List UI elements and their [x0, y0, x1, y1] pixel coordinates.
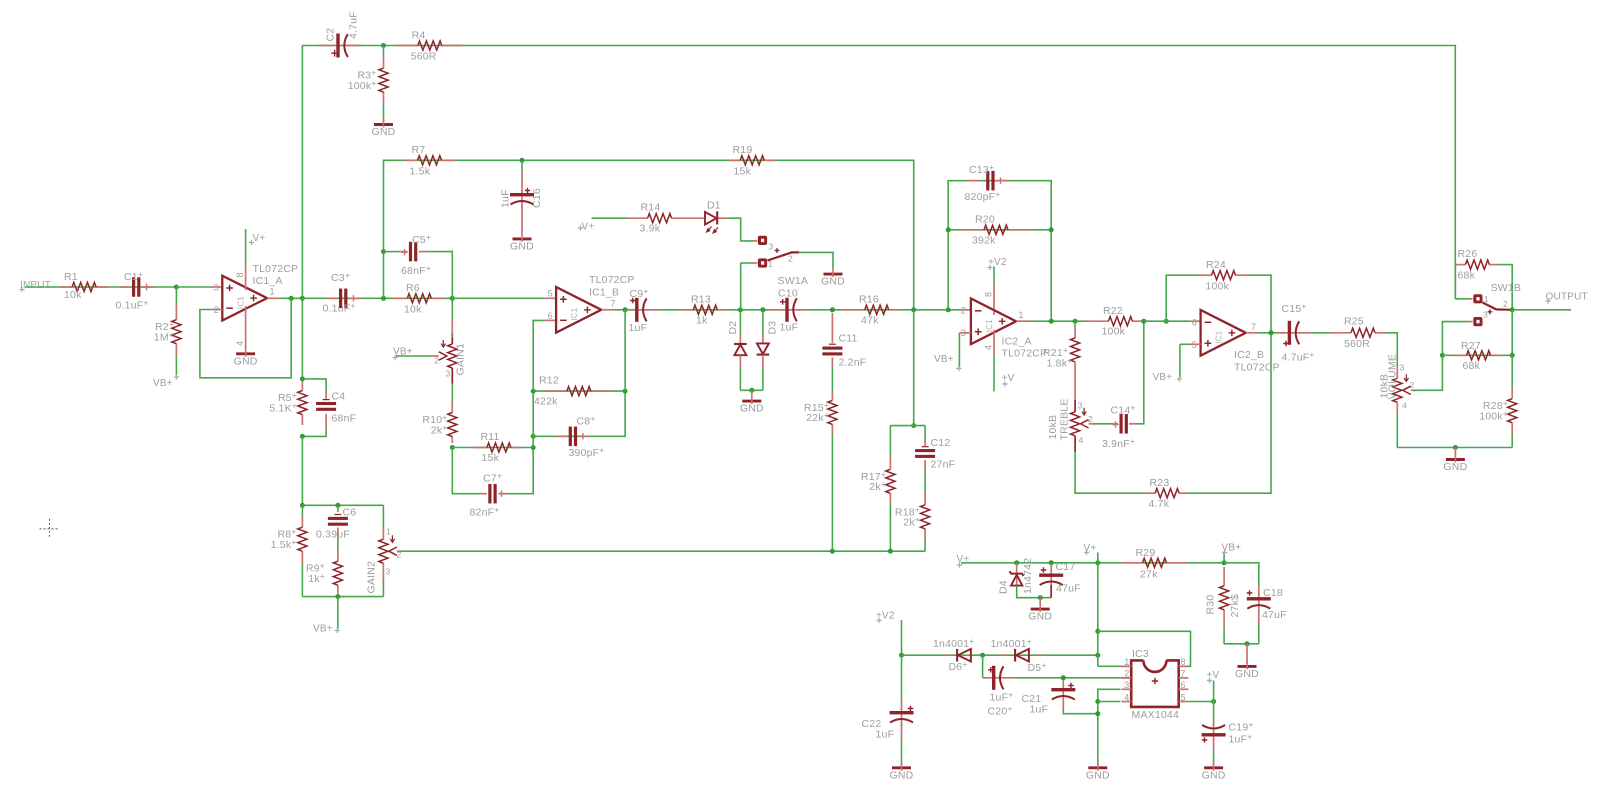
zener diode D4 [1016, 563, 1018, 585]
wire C6 top row [302, 504, 383, 506]
resistor R5 [301, 381, 303, 391]
resistor R7 [404, 159, 418, 161]
svg-text:R23: R23 [1150, 477, 1170, 489]
svg-text:GND: GND [234, 355, 258, 367]
capacitor C3 [326, 297, 337, 299]
wire C9 junction down to R12 [624, 310, 626, 391]
svg-text:VB+: VB+ [934, 354, 954, 365]
wire R30 C18 bottom row [1223, 626, 1225, 644]
potentiometer GAIN2 [382, 505, 384, 527]
resistor R26 [1455, 264, 1465, 266]
resistor R14 [628, 217, 648, 219]
wire IC1_A feedback loop [200, 298, 291, 378]
svg-text:392k: 392k [972, 235, 996, 247]
ground under C19 [1213, 763, 1215, 766]
capacitor C8 [556, 435, 567, 437]
node junction IC1_B out [623, 307, 628, 312]
ground under C22 [901, 763, 903, 766]
svg-text:R11: R11 [481, 431, 500, 443]
resistor R12 [545, 390, 567, 392]
op-amp IC1_A [222, 276, 267, 321]
wire D4 bottom [1017, 586, 1051, 598]
capacitor C21 [1062, 680, 1064, 688]
svg-text:4.7uF: 4.7uF [348, 11, 360, 39]
svg-text:0.1uF+: 0.1uF+ [323, 301, 356, 315]
svg-text:1uF: 1uF [876, 729, 895, 741]
wire R26 right to output node [1499, 265, 1512, 310]
svg-text:1: 1 [386, 527, 391, 537]
node junction diode GND [749, 388, 754, 393]
resistor R21 [1074, 321, 1076, 327]
wire GAIN2 wiper stub [397, 550, 401, 552]
wire IC3 pin1 [1098, 665, 1121, 667]
resistor R22 [1086, 320, 1108, 322]
resistor R2 [175, 287, 177, 305]
svg-text:422k: 422k [534, 396, 558, 408]
resistor R3 [383, 46, 385, 58]
wire +V2 down [901, 620, 903, 655]
capacitor C4 [325, 391, 327, 400]
node junction D3 [760, 307, 765, 312]
svg-text:R20: R20 [975, 214, 995, 226]
svg-text:1: 1 [1484, 294, 1489, 304]
svg-text:IC1: IC1 [1215, 330, 1224, 343]
svg-text:C12: C12 [931, 437, 951, 449]
wire C6 bottom row [302, 596, 383, 598]
svg-text:GND: GND [510, 240, 534, 252]
svg-text:+V2: +V2 [876, 611, 895, 622]
svg-text:22k+: 22k+ [806, 410, 829, 424]
svg-text:1uF: 1uF [629, 322, 648, 334]
svg-text:3.9k: 3.9k [640, 223, 661, 235]
svg-text:R30: R30 [1205, 595, 1217, 615]
svg-text:3: 3 [386, 567, 391, 577]
svg-text:68nF+: 68nF+ [401, 263, 431, 277]
svg-text:R24: R24 [1206, 259, 1226, 271]
supply VB+ at GAIN1 [393, 355, 398, 360]
svg-text:IC1: IC1 [985, 319, 994, 332]
svg-text:2.2nF: 2.2nF [839, 357, 867, 369]
node junction C21 bottom [1095, 711, 1100, 716]
svg-text:C6: C6 [343, 507, 357, 519]
wire C22 to GND [901, 723, 903, 741]
node junction D4 top [1014, 560, 1019, 565]
svg-text:C15+: C15+ [1282, 301, 1307, 315]
capacitor C13 [966, 180, 979, 182]
resistor R8 [301, 505, 303, 515]
wire bottom row [1397, 447, 1512, 449]
wire GAIN1 pin3 to R10 [451, 384, 453, 403]
svg-text:4.7k: 4.7k [1149, 498, 1170, 510]
wire IC3 pin4 [1098, 701, 1121, 703]
capacitor C6 [337, 505, 339, 512]
svg-text:R27: R27 [1461, 340, 1481, 352]
ground under IC1_A pin4 [245, 306, 247, 348]
svg-text:C7+: C7+ [483, 471, 502, 485]
svg-text:4: 4 [984, 345, 994, 350]
svg-text:D5+: D5+ [1028, 660, 1047, 674]
svg-text:R22: R22 [1103, 305, 1123, 317]
IC IC3 MAX1044 [1143, 660, 1166, 672]
wire IC1_A output [267, 297, 280, 299]
svg-text:C18: C18 [1263, 587, 1283, 599]
svg-text:100k+: 100k+ [348, 78, 377, 92]
node OUTPUT [1545, 298, 1550, 303]
svg-text:8: 8 [1181, 657, 1186, 667]
svg-text:1: 1 [1019, 310, 1024, 320]
node junction R30 C18 GND [1245, 641, 1250, 646]
svg-text:4.7uF+: 4.7uF+ [1282, 350, 1315, 364]
wire GAIN2 wiper row [400, 550, 925, 552]
svg-text:VB+: VB+ [393, 347, 413, 358]
svg-text:IC2_A: IC2_A [1002, 336, 1032, 348]
svg-text:10k: 10k [404, 304, 422, 316]
svg-text:TL072CP: TL072CP [589, 274, 635, 286]
capacitor C12 [924, 440, 926, 446]
capacitor C20 [982, 655, 984, 678]
svg-text:GND: GND [1202, 769, 1226, 781]
svg-text:68nF: 68nF [332, 413, 357, 425]
svg-text:1uF: 1uF [500, 189, 512, 208]
ground under SW1A [824, 273, 843, 276]
svg-text:C17: C17 [1056, 561, 1076, 573]
capacitor C16 [521, 160, 523, 172]
svg-text:3: 3 [214, 283, 219, 293]
node junction R19 vertical [911, 307, 916, 312]
svg-text:15k: 15k [734, 166, 752, 178]
wire R18 to bottom [924, 540, 926, 551]
wire VB+ to C18 [1224, 563, 1259, 587]
svg-text:2: 2 [434, 356, 439, 366]
svg-text:R16: R16 [859, 294, 879, 306]
resistor R19 [729, 159, 741, 161]
svg-text:1uF+: 1uF+ [990, 690, 1014, 704]
node junction D5 right [1095, 653, 1100, 658]
potentiometer TREBLE [1074, 400, 1076, 412]
node junction R10 R11 [450, 445, 455, 450]
node junction GND bottom [1453, 445, 1458, 450]
node junction R9 bottom [335, 594, 340, 599]
svg-text:1: 1 [450, 330, 455, 340]
node INPUT [19, 287, 24, 292]
svg-text:TL072CP: TL072CP [1002, 348, 1048, 360]
capacitor C22 [901, 655, 903, 700]
wire pin8 loop [1098, 631, 1191, 666]
svg-text:IC1_A: IC1_A [253, 275, 283, 287]
svg-text:2k+: 2k+ [903, 515, 920, 529]
svg-text:100k: 100k [1102, 326, 1126, 338]
svg-text:1k: 1k [696, 315, 708, 327]
node junction feedback [289, 296, 294, 301]
resistor R16 [842, 309, 865, 311]
svg-text:0.39uF: 0.39uF [316, 529, 350, 541]
svg-text:VB+: VB+ [313, 624, 333, 635]
node junction +V2 row [899, 653, 904, 658]
wire R24 loop [1166, 275, 1199, 321]
svg-text:7: 7 [1181, 669, 1186, 679]
svg-text:10kB: 10kB [1047, 415, 1059, 440]
svg-text:47uF: 47uF [1056, 583, 1081, 595]
wire SW1B pin3 [1469, 321, 1473, 323]
resistor R20 [962, 229, 984, 231]
svg-text:+V2: +V2 [988, 257, 1007, 268]
svg-text:820pF+: 820pF+ [965, 189, 1001, 203]
svg-text:GAIN2: GAIN2 [366, 561, 378, 594]
svg-text:R25: R25 [1344, 316, 1364, 328]
svg-text:2: 2 [1410, 380, 1415, 390]
svg-text:D1: D1 [707, 200, 721, 212]
svg-text:IC2_B: IC2_B [1234, 349, 1264, 361]
wire R15 to bottom row [831, 434, 833, 551]
wire C4 branch [302, 379, 326, 391]
svg-text:6: 6 [548, 311, 553, 321]
supply +V under IC2_A pin4 [993, 330, 995, 355]
node junction V+ vertical [1095, 560, 1100, 565]
wire TREBLE pin4 to R23 row [1075, 452, 1146, 493]
svg-text:560R: 560R [1344, 338, 1370, 350]
resistor R1 [59, 286, 72, 288]
wire OUTPUT [1512, 309, 1571, 311]
node junction output [1510, 307, 1515, 312]
capacitor C11 [831, 313, 833, 343]
origin mark [40, 519, 60, 539]
svg-text:R7: R7 [412, 144, 426, 156]
svg-text:1k+: 1k+ [308, 571, 325, 585]
supply VB+ above junction [1223, 552, 1225, 563]
svg-text:C13+: C13+ [969, 162, 994, 176]
node junction R22 right [1141, 319, 1146, 324]
svg-text:5: 5 [1181, 692, 1186, 702]
resistor R23 [1146, 492, 1155, 494]
wire down to C6 row [301, 436, 303, 505]
wire SW1A pin2 to GND [799, 252, 833, 268]
resistor R6 [394, 297, 407, 299]
svg-text:4: 4 [1402, 401, 1407, 411]
svg-text:27k: 27k [1140, 569, 1158, 581]
wire V+ vertical to IC3 [1097, 563, 1099, 667]
svg-text:R14: R14 [641, 202, 661, 214]
node junction C6 row left [300, 503, 305, 508]
switch SW1A [758, 236, 767, 245]
ground under R30 C18 [1246, 644, 1248, 664]
svg-text:R6: R6 [406, 282, 420, 294]
wire [25, 286, 176, 288]
node junction R15 bottom [830, 549, 835, 554]
svg-text:GAIN1: GAIN1 [455, 343, 467, 376]
svg-text:15k: 15k [482, 452, 500, 464]
wire row2 [625, 309, 971, 311]
wire SW1A pin1 [741, 262, 754, 264]
svg-text:+V: +V [1002, 373, 1015, 384]
svg-text:3: 3 [1078, 401, 1083, 411]
diode D6 [944, 654, 950, 656]
capacitor C5 [399, 251, 408, 253]
wire to IC2_A pin2 [960, 309, 971, 311]
wire TREBLE wiper to C14 [1089, 423, 1095, 425]
svg-text:R4: R4 [412, 30, 426, 42]
node junction top R3 [381, 43, 386, 48]
wire IC1_A out down to R5 [301, 298, 303, 379]
capacitor C1 [121, 286, 130, 288]
wire row1 [302, 297, 452, 299]
wire V+ to R14 [592, 217, 629, 219]
svg-text:7: 7 [1251, 322, 1256, 332]
svg-text:TL072CP: TL072CP [1234, 362, 1280, 374]
svg-text:1uF+: 1uF+ [1229, 732, 1253, 746]
op-amp IC2_A [971, 299, 1016, 345]
ground under C16 [521, 205, 523, 233]
node junction R20 left [946, 227, 951, 232]
supply VB+ under R2 [174, 374, 179, 379]
node junction pin8 loop [1095, 629, 1100, 634]
wire R21 to TREBLE [1074, 362, 1076, 373]
wire C19 to GND [1213, 737, 1215, 751]
svg-text:1.5k+: 1.5k+ [271, 537, 297, 551]
svg-text:6: 6 [1192, 318, 1197, 328]
svg-text:V+: V+ [253, 233, 266, 244]
capacitor C2 [318, 45, 332, 47]
node junction C17 top [1049, 560, 1054, 565]
LED D1 [682, 217, 704, 219]
resistor R29 [1121, 562, 1143, 564]
svg-text:1uF: 1uF [1030, 704, 1049, 716]
svg-text:7: 7 [611, 299, 616, 309]
wire output vertical [1511, 310, 1513, 356]
node junction R5 C4 top [300, 376, 305, 381]
svg-text:R26: R26 [1458, 248, 1478, 260]
node junction C20 top [980, 653, 985, 658]
svg-text:2: 2 [1088, 414, 1093, 424]
svg-text:GND: GND [821, 276, 845, 288]
svg-text:8: 8 [235, 272, 245, 277]
svg-text:IC1: IC1 [570, 307, 579, 320]
capacitor C14 [1112, 423, 1118, 425]
wire R20 row [948, 229, 1051, 231]
supply VB+ under GAIN2 [337, 597, 339, 629]
svg-text:GND: GND [740, 403, 764, 415]
supply V+ at R14 [578, 225, 583, 230]
svg-text:C3+: C3+ [331, 270, 350, 284]
node junction R5 C4 bottom [300, 434, 305, 439]
node junction IC2_B out [1269, 330, 1274, 335]
svg-text:1: 1 [270, 287, 275, 297]
wire C21 bottom [1062, 700, 1064, 710]
svg-text:V+: V+ [582, 222, 595, 233]
wire IC3 pin3 to GND [1098, 689, 1121, 763]
svg-text:C16: C16 [531, 188, 543, 208]
svg-text:R29: R29 [1136, 547, 1156, 559]
node junction IC1_A out [300, 296, 305, 301]
potentiometer GAIN1 [451, 333, 453, 344]
potentiometer VOLUME [1396, 366, 1398, 378]
resistor R30 [1223, 567, 1225, 586]
resistor R28 [1511, 355, 1513, 387]
svg-text:GND: GND [372, 126, 396, 138]
svg-text:C4: C4 [332, 391, 346, 403]
svg-text:6: 6 [1181, 680, 1186, 690]
supply +V2 above IC2_A [993, 267, 995, 286]
wire C7 loop [452, 448, 479, 494]
svg-text:82nF+: 82nF+ [470, 505, 500, 519]
svg-text:C14+: C14+ [1111, 403, 1136, 417]
svg-text:3: 3 [446, 369, 451, 379]
wire IC2_B output [1246, 332, 1258, 334]
svg-text:R13: R13 [691, 294, 711, 306]
wire SW1B pin1 [1454, 265, 1456, 299]
wire C5 branch [384, 251, 400, 253]
svg-text:1uF: 1uF [780, 322, 799, 334]
ground under IC3 [1097, 763, 1099, 766]
node junction C11 [830, 307, 835, 312]
svg-text:V+: V+ [1084, 543, 1097, 554]
wire IC1_B feedback [533, 320, 545, 391]
svg-text:C2: C2 [325, 28, 337, 42]
resistor R17 [889, 458, 891, 469]
supply V+ power rail [957, 562, 962, 567]
resistor R24 [1199, 274, 1212, 276]
svg-text:C11: C11 [839, 333, 858, 345]
wire C13 loop [948, 181, 1051, 322]
svg-text:C5+: C5+ [412, 232, 431, 246]
svg-text:3: 3 [1400, 363, 1405, 373]
resistor R10 [451, 403, 453, 413]
supply V+ above IC1_A pin8 [245, 229, 247, 264]
svg-text:SW1B: SW1B [1491, 282, 1522, 294]
capacitor C18 [1258, 586, 1260, 596]
svg-text:2: 2 [1124, 669, 1129, 679]
capacitor C7 [479, 493, 487, 495]
svg-text:GND: GND [890, 769, 914, 781]
svg-text:5: 5 [548, 289, 553, 299]
ground under D4 C17 [1039, 598, 1041, 605]
svg-text:OUTPUT: OUTPUT [1546, 292, 1588, 303]
node junction C21 top [1061, 675, 1066, 680]
op-amp IC1_B [556, 287, 601, 333]
wire C14 up to R22 junction [1136, 321, 1144, 424]
node junction C5 left [381, 249, 386, 254]
resistor R9 [337, 528, 339, 538]
diode D5 [1002, 654, 1008, 656]
svg-text:D3: D3 [767, 321, 779, 335]
wire C12 to R18 [924, 460, 926, 469]
wire to IC2_B pin6 [1144, 320, 1190, 322]
svg-text:VB+: VB+ [1222, 543, 1242, 554]
svg-text:10k: 10k [64, 289, 82, 301]
capacitor C10 [768, 309, 785, 311]
supply +V2 node [876, 618, 881, 623]
supply V+ above vertical [1097, 553, 1099, 563]
wire diode row [902, 654, 1098, 656]
svg-text:D6+: D6+ [949, 659, 968, 673]
capacitor C19 [1213, 702, 1215, 723]
svg-text:SW1A: SW1A [778, 275, 809, 287]
svg-text:3: 3 [1124, 680, 1129, 690]
resistor R13 [681, 309, 693, 311]
capacitor C9 [629, 309, 634, 311]
svg-text:2: 2 [1503, 299, 1508, 309]
svg-text:4: 4 [235, 341, 245, 346]
capacitor C15 [1277, 332, 1287, 334]
svg-text:2: 2 [961, 306, 966, 316]
svg-text:0.1uF+: 0.1uF+ [116, 298, 149, 312]
svg-text:GND: GND [1028, 611, 1052, 623]
svg-text:47uF: 47uF [1262, 609, 1287, 621]
svg-text:2: 2 [788, 254, 793, 264]
svg-text:1M+: 1M+ [154, 330, 174, 344]
node junction VB+ [1222, 560, 1227, 565]
wire IC2_A pin3 to VB+ [959, 332, 971, 334]
svg-text:+V: +V [1207, 670, 1220, 681]
